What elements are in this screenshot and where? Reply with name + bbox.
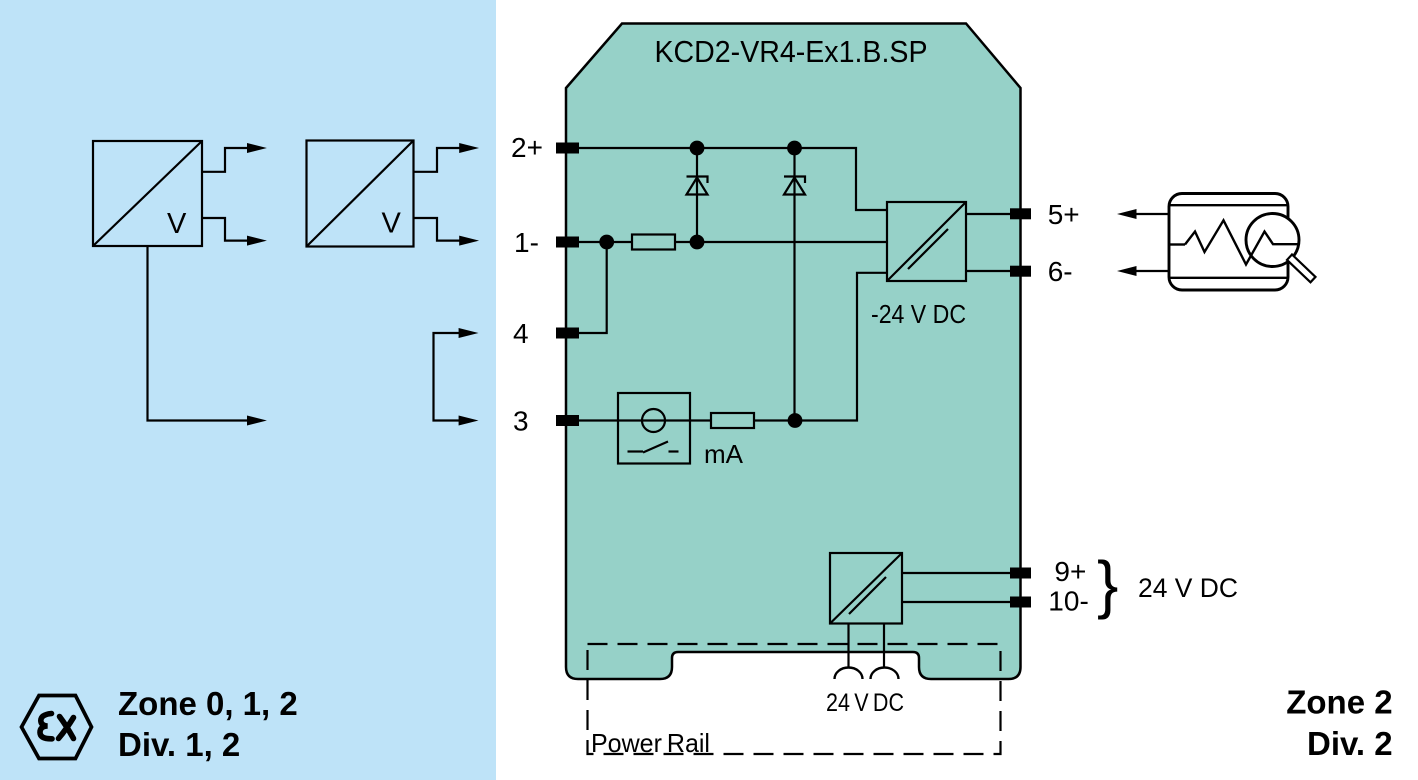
svg-text:10-: 10- — [1048, 586, 1088, 617]
svg-text:6-: 6- — [1048, 256, 1073, 287]
svg-text:5+: 5+ — [1048, 199, 1080, 230]
svg-text:Div. 2: Div. 2 — [1307, 725, 1393, 762]
svg-text:mA: mA — [704, 439, 744, 469]
svg-text:V: V — [167, 208, 187, 240]
svg-text:24 V DC: 24 V DC — [826, 689, 904, 717]
svg-text:}: } — [1097, 548, 1118, 620]
svg-text:2+: 2+ — [511, 132, 543, 163]
svg-text:Zone 0, 1, 2: Zone 0, 1, 2 — [118, 685, 298, 722]
svg-text:Div. 1, 2: Div. 1, 2 — [118, 726, 240, 763]
svg-text:Zone 2: Zone 2 — [1286, 684, 1392, 721]
svg-text:1-: 1- — [514, 227, 539, 258]
svg-text:KCD2-VR4-Ex1.B.SP: KCD2-VR4-Ex1.B.SP — [655, 34, 928, 69]
svg-text:-24 V DC: -24 V DC — [871, 299, 966, 329]
svg-text:9+: 9+ — [1054, 556, 1086, 587]
svg-text:4: 4 — [513, 318, 529, 349]
svg-text:24 V DC: 24 V DC — [1138, 573, 1238, 603]
svg-text:V: V — [382, 208, 402, 240]
svg-text:3: 3 — [513, 406, 529, 437]
svg-text:Power Rail: Power Rail — [591, 728, 710, 758]
